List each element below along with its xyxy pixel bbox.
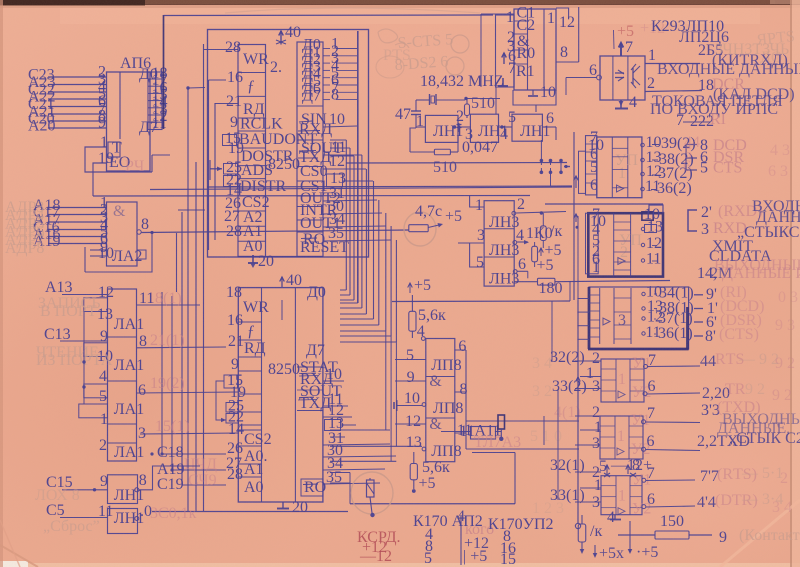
resistor 150 output (618, 513, 800, 546)
resistor 1k bottom right (578, 515, 602, 554)
IC D6 receiver 2 thick box (588, 213, 663, 276)
transmitter3 power marks (599, 457, 652, 477)
bus lower continuation (386, 331, 397, 461)
label K170AP2 table (413, 508, 494, 567)
resistor R 4.7k with pencil circle (404, 203, 462, 246)
label A13 write (38, 279, 107, 320)
label C13 read (36, 326, 113, 369)
8250-1 right pin numbers and stubs (323, 36, 391, 243)
IC D3 LN1 gate c (512, 114, 542, 141)
8250-2 center label (268, 288, 300, 502)
receiver1 output pins (641, 134, 696, 197)
LN3 pin labels (475, 196, 526, 273)
pencil marks far right top (756, 28, 796, 66)
red labels 18(1) 21(1) 19(2) (147, 290, 190, 435)
transmitter2 wires (575, 416, 700, 451)
pencil marks left margin (530, 355, 581, 517)
wire net y187 mid (207, 186, 572, 187)
wire bottom bus (152, 511, 348, 513)
wire net y196 (93, 195, 530, 198)
bottom-left crease (0, 545, 38, 567)
data bus bundle (330, 31, 396, 342)
wire +5 bottom right (593, 521, 659, 562)
red ghost marks right margin (768, 142, 798, 516)
wire y301 (392, 300, 570, 303)
LA1 input loop boxes (79, 298, 108, 418)
8250-2 left pin numbers (224, 284, 246, 483)
osc wires (416, 99, 556, 141)
IC U2 8250 UART outer box (208, 30, 369, 258)
bottom paper edge (0, 563, 800, 567)
wires AP6 lower (85, 147, 170, 196)
bus wires right mid (544, 301, 558, 500)
LN1e wires (43, 502, 108, 535)
crystal Q1 18.432MHz (416, 73, 504, 105)
8250-1 ground pin20 (252, 255, 254, 263)
wire net y189 (150, 187, 572, 190)
pencil arc top (225, 8, 480, 13)
resistor 7.6k lower (410, 452, 450, 493)
IC D4 counter divider (514, 5, 556, 91)
LP8 pins right (455, 338, 475, 449)
LN3 outputs (512, 211, 566, 278)
LA2 output pin 8 (137, 216, 409, 234)
osc pin numbers (416, 108, 554, 143)
IC D2 ЛА2 NAND (107, 202, 143, 266)
8250-2 right pin column (297, 284, 342, 496)
wire osc to divider (541, 140, 561, 186)
pin boxes AP6 outputs 18-11 (148, 65, 168, 132)
opto pin7 arrow (614, 30, 634, 56)
IC D10 transmitter 3 (592, 464, 655, 518)
right paper crease (790, 0, 792, 567)
IC D13 LN1 gate d (100, 472, 147, 504)
resistor R 510 osc (464, 95, 495, 118)
divider bottom extension (513, 90, 556, 112)
IC D11 LN3 inverters (484, 201, 519, 288)
bus line right of AP6 (163, 15, 165, 129)
receiver3 left stubs (577, 299, 589, 340)
bus wires x162-203 (162, 88, 196, 511)
wire CS loop left 8250-2 (216, 381, 226, 422)
receiver3 pins inside (642, 284, 694, 343)
8250-2 left pin column (238, 288, 271, 502)
labels 8 DCD 6 DSR 5 CTS (686, 137, 747, 177)
LN3 input loops (458, 196, 484, 268)
transistor dark component (495, 415, 505, 441)
8250-1 right pin column (297, 37, 349, 257)
IC U1 АП6 buffer (98, 55, 158, 175)
divider left extension box (496, 9, 517, 87)
divider pin 12 wire (556, 8, 575, 31)
8250-1 left pin column (238, 45, 317, 257)
IC D8 transmitter 1 (586, 350, 656, 402)
wire top bus (164, 14, 494, 17)
IC U4 8250 UART 2 outer (238, 288, 323, 502)
top scan edge (0, 0, 800, 5)
IC D7 receiver 3 thick box (588, 287, 689, 350)
labels 7' RTS 4' DTR (697, 465, 783, 511)
left paper edge (0, 0, 3, 567)
capacitor 0.047 (457, 123, 499, 156)
wire x84 vertical (82, 311, 85, 404)
wires LA2 inputs (48, 195, 114, 263)
resistor 5.6k upper (408, 277, 446, 340)
wires address inputs to AP6 (48, 76, 106, 78)
wire 180 to receiver (569, 281, 571, 301)
resistor 2 LN3 (532, 242, 554, 274)
diode VD1 circled (351, 472, 393, 517)
IC D12 LA1 NAND column (108, 289, 145, 461)
wire junction (186, 86, 189, 89)
8250-2 right pin numbers (323, 366, 396, 486)
LA1 pin numbers (97, 284, 114, 454)
labels 9' 1' 6' 8' (694, 284, 764, 345)
resistor feedback osc (410, 128, 458, 155)
IC D15 LP8 gates (426, 339, 464, 462)
labels 2' RXD stik C2 (688, 198, 800, 241)
bus wire x572 upper (573, 132, 575, 300)
labels 32(1) 33(1) (550, 457, 585, 504)
LN1d wires (35, 466, 200, 504)
receiver2 right pins (641, 205, 663, 268)
resistor 180 (514, 278, 670, 297)
wire arrow ADS (210, 160, 222, 180)
labels 44 RTS / 220 TR (700, 351, 779, 402)
8250-1 left pin numbers (223, 39, 245, 240)
resistor 1K0 (526, 213, 562, 259)
bottom-right crease (720, 500, 800, 567)
bus wire x578 lower (575, 300, 580, 529)
wire divider feed (481, 14, 514, 114)
transmitter3 ground (607, 509, 621, 526)
opto pin 6 input (566, 62, 601, 95)
IC A11 box (441, 422, 521, 451)
transmitter3 wires (575, 472, 695, 507)
optocoupler U3 (600, 56, 645, 100)
red label KSRD (357, 529, 401, 565)
wires LA1 outputs to bus (178, 209, 205, 211)
light band below top edge (60, 8, 760, 24)
net labels C18 A19 C19 (150, 444, 226, 493)
receiver2 left pin boxes (574, 206, 606, 276)
IC D9 transmitter 2 (592, 404, 655, 459)
IC D3 LN1 gate a (425, 115, 458, 142)
IC D5 receiver 1 (597, 137, 642, 198)
8250-2 pin40 arrow (280, 272, 302, 289)
8250-2 ground pin20 (277, 499, 308, 516)
8250-1 bottom edge wires (238, 256, 323, 258)
labels 3' TXD vyhod (697, 399, 800, 450)
opto output wires 1 2 (645, 47, 702, 92)
IC D3 LN1 gate b (470, 114, 498, 142)
wire above receiver2 (545, 203, 663, 205)
junction connector cluster (540, 159, 570, 174)
receiver1 left pin boxes (574, 129, 604, 195)
LP8 pins left (330, 347, 426, 451)
divider ground pin10 (528, 84, 556, 101)
wire net 510 long (346, 162, 567, 165)
pencil scribbles top right of 8250 (376, 29, 411, 78)
transmitter1 wires (575, 361, 700, 394)
wires LP8 to transmitters (466, 421, 579, 449)
LA1 outputs (138, 290, 154, 442)
bus wires left of 8250-1 (204, 44, 239, 511)
labels XMIT CLDATA (697, 238, 800, 282)
8250-1 pin40 arrow (276, 24, 301, 45)
wires A11 area (330, 430, 515, 504)
labels 32(2) 33(2) (550, 349, 587, 395)
capacitor 47 (395, 100, 421, 128)
label K170UP2 table (488, 516, 554, 567)
IC D14 LN1 gate e (98, 503, 197, 534)
pencil note RTS CTS (394, 31, 469, 75)
bus stubs into 8250-2 (340, 290, 396, 342)
wires LA2 bottom loop (85, 232, 152, 272)
opto pin4 ground (615, 94, 637, 111)
divider pin 8 wire (556, 7, 579, 62)
wire corner x176 (176, 233, 178, 292)
wires ЛА1 to 8250-2 area (137, 305, 238, 434)
